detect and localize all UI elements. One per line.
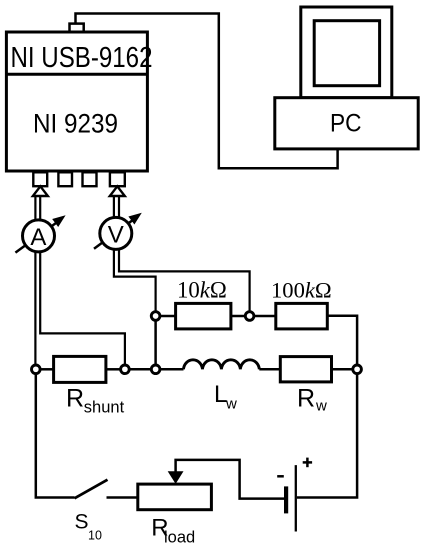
svg-text:V: V [108,221,124,248]
svg-text:A: A [30,224,46,251]
svg-text:100kΩ: 100kΩ [271,277,332,302]
svg-text:R: R [297,385,315,413]
svg-text:10: 10 [88,528,102,542]
svg-text:shunt: shunt [84,399,125,417]
svg-text:w: w [315,398,327,415]
svg-text:NI 9239: NI 9239 [33,108,118,138]
svg-text:NI USB-9162: NI USB-9162 [11,42,153,74]
svg-text:load: load [164,529,195,547]
svg-text:R: R [66,385,84,413]
svg-text:w: w [225,396,237,413]
svg-text:S: S [75,511,89,534]
svg-text:10kΩ: 10kΩ [177,277,227,302]
svg-text:PC: PC [330,110,362,138]
